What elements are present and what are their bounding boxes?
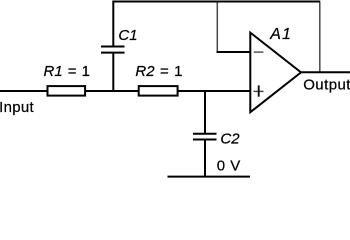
wire: C2 top lead from rail: [204, 92, 206, 134]
svg-text:0 V: 0 V: [217, 158, 241, 175]
ground 0 V rail: [168, 176, 251, 178]
wire: feedback drop to output node: [319, 3, 321, 73]
wire: C1 bottom lead down to input rail: [112, 53, 114, 92]
svg-text:A1: A1: [269, 26, 292, 43]
wire: C2 bottom lead to ground: [204, 140, 206, 177]
op-amp A1: [250, 33, 301, 113]
svg-text:Output: Output: [303, 76, 350, 93]
wire: inverting input lead: [217, 51, 251, 53]
pin - (inverting input mark): [254, 51, 264, 53]
svg-text:C2: C2: [220, 130, 240, 147]
pin + (non-inverting input mark): [254, 85, 264, 96]
svg-text:R1 = 1: R1 = 1: [44, 63, 90, 80]
wire: feedback top rail from C1 top across the page: [113, 2, 320, 47]
svg-text:C1: C1: [118, 27, 137, 44]
capacitor C2: [193, 134, 217, 140]
capacitor C1: [101, 47, 125, 53]
svg-text:R2 = 1: R2 = 1: [135, 63, 182, 80]
wire: main input rail: [0, 90, 250, 92]
svg-text:Input: Input: [0, 99, 34, 116]
wire: feedback branch drop toward inverting input: [216, 3, 218, 52]
resistor R1: [48, 86, 86, 96]
wire: output: [300, 71, 350, 73]
resistor R2: [139, 86, 178, 96]
